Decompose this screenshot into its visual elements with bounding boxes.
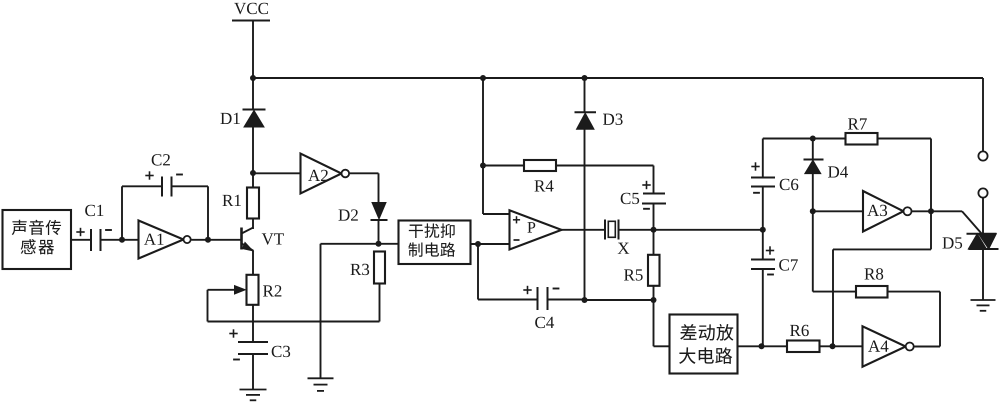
capacitor C2 label <box>152 154 162 165</box>
resistor R3 <box>374 252 385 284</box>
wire C2 loop top-left <box>122 185 162 187</box>
node R5 bottom junction <box>651 297 657 303</box>
resistor R5 <box>648 255 660 286</box>
node A3 input junction <box>810 208 816 214</box>
wire C7 top <box>762 230 764 260</box>
wire C6 top <box>762 139 764 178</box>
capacitor C7 plus <box>766 250 774 252</box>
capacitor C1 plus <box>76 231 84 233</box>
node X output junction <box>651 227 657 233</box>
block interference text <box>409 225 423 238</box>
node C6 C7 junction <box>760 227 766 233</box>
wire D3 top <box>584 78 586 112</box>
capacitor C5 label <box>621 193 631 204</box>
capacitor C2 <box>161 177 163 197</box>
resistor R6 <box>787 341 820 353</box>
resistor R5 label <box>624 269 635 280</box>
wire D2 junction left <box>321 243 379 245</box>
wire C2 loop top-right <box>172 185 209 187</box>
capacitor C2 plus <box>145 175 153 177</box>
capacitor C3 <box>238 341 268 343</box>
wire D4 bottom <box>812 174 814 212</box>
wire A2 output down to D2 <box>378 173 380 203</box>
capacitor C6 minus <box>753 192 760 194</box>
resistor R8 label <box>864 268 875 279</box>
ground mid <box>308 377 334 379</box>
ground under C3 <box>240 389 267 391</box>
block sound sensor text <box>12 220 27 235</box>
resistor R7 label <box>848 118 859 129</box>
op-amp A1 <box>139 221 184 259</box>
wire R5 bottom <box>653 286 655 300</box>
power VCC bar <box>232 20 270 22</box>
node A1 input junction <box>119 237 125 243</box>
wire A2 output right <box>350 172 379 174</box>
wire diff box output <box>738 345 788 347</box>
capacitor C6 <box>751 177 775 179</box>
wire down to mid ground <box>320 244 322 378</box>
resistor R4 <box>524 160 556 171</box>
wire A1 output to VT base <box>192 239 242 241</box>
node VCC rail junction <box>250 75 256 81</box>
wire R2 to C3 <box>252 305 254 342</box>
triac D5 label <box>942 237 953 248</box>
wire C5 to node <box>653 204 655 230</box>
wire sensor to C1 <box>71 239 91 241</box>
wire R3 bottom <box>379 284 381 322</box>
capacitor C6 plus <box>751 166 759 168</box>
ground under D5 <box>971 299 996 301</box>
wire A3 output <box>912 210 932 212</box>
op-amp A4 <box>863 326 906 366</box>
wire R5 node to diff box <box>653 300 655 346</box>
op-amp A4 label <box>868 340 880 351</box>
wire A3 input <box>813 210 863 212</box>
crystal X label <box>618 243 630 254</box>
transistor VT emitter <box>242 243 254 251</box>
resistor R2 label <box>263 285 274 296</box>
op-amp A2 label <box>308 170 320 181</box>
wire box to P junction <box>471 243 510 245</box>
wire D2 to junction <box>378 220 380 245</box>
resistor R8 <box>856 286 888 298</box>
diode D2 label <box>338 209 349 220</box>
block diff amp text <box>680 324 696 340</box>
node A1 output junction <box>205 237 211 243</box>
wire C2 loop left <box>121 186 123 240</box>
capacitor C1 label <box>85 205 95 216</box>
node base of D1 / A2 tap <box>250 170 256 176</box>
capacitor C2 minus <box>176 174 183 176</box>
op-amp P minus <box>514 239 520 241</box>
capacitor C7 minus <box>767 274 774 276</box>
wire D4 top <box>812 139 814 161</box>
capacitor C6 label <box>780 179 790 190</box>
capacitor C7 <box>751 259 775 261</box>
wire VCC to D1 <box>252 21 254 111</box>
capacitor C4 <box>537 287 539 310</box>
wire A4 output <box>914 346 941 348</box>
node D2 junction <box>376 241 382 247</box>
diode D2 <box>372 203 386 220</box>
power VCC label <box>234 3 246 14</box>
op-amp A3 label <box>867 205 879 216</box>
resistor R4 wire left <box>483 165 524 167</box>
wire C2 loop right <box>207 186 209 240</box>
triac D5 <box>967 233 997 235</box>
wire C4 right <box>548 299 585 301</box>
wire wiper to R3 bottom <box>208 321 380 323</box>
terminal circle 1 <box>978 151 987 160</box>
capacitor C4 plus <box>523 289 531 291</box>
resistor R6 label <box>790 325 801 336</box>
capacitor C5 <box>643 193 665 195</box>
wire C6 to R7 <box>763 138 846 140</box>
node rail tap 585 <box>582 75 588 81</box>
terminal circle 2 <box>978 188 987 197</box>
resistor R4 label <box>534 180 545 191</box>
wire P output to X <box>562 229 606 231</box>
wire A3 node down <box>930 211 932 249</box>
transistor VT base bar <box>240 228 243 250</box>
wire tap to A2 input <box>253 172 301 174</box>
diode D1 <box>243 109 266 111</box>
wire R4 right to C5 <box>556 165 654 167</box>
capacitor C5 minus <box>643 208 650 210</box>
op-amp P triangle <box>510 210 562 249</box>
diode D1 label <box>220 113 231 124</box>
wire R1 to VT collector <box>252 219 254 230</box>
node C4 right junction <box>582 297 588 303</box>
wire D3 bottom <box>584 129 586 300</box>
diode D3 label <box>603 114 614 125</box>
wire R7 right <box>878 138 932 140</box>
node C7 bottom junction <box>759 343 765 349</box>
wire D1 to R1 <box>252 127 254 188</box>
capacitor C1 <box>90 229 92 251</box>
capacitor C4 label <box>535 317 545 328</box>
block diff amp box <box>670 315 738 374</box>
wire top rail <box>253 77 983 79</box>
node rail tap 483 <box>480 75 486 81</box>
wire C4 node to R5 node <box>585 299 654 301</box>
node A4 input junction <box>830 343 836 349</box>
resistor R7 <box>846 133 878 145</box>
capacitor C3 label <box>272 346 282 357</box>
wire C6 bottom <box>762 187 764 230</box>
wire right rail down <box>982 78 984 152</box>
resistor R2 potentiometer <box>247 275 259 305</box>
transistor VT label <box>262 233 274 244</box>
crystal X <box>604 220 606 240</box>
node R4 left junction <box>480 163 486 169</box>
resistor R3 label <box>350 264 361 275</box>
capacitor C3 minus <box>233 359 240 361</box>
op-amp P plus <box>513 219 520 221</box>
transistor VT collector <box>242 227 254 233</box>
wire junction down to C4 <box>477 244 479 300</box>
node P minus input junction <box>475 241 481 247</box>
capacitor C3 plus <box>229 333 237 335</box>
op-amp A1 label <box>144 234 156 245</box>
wire D5 gate <box>931 210 962 212</box>
op-amp P label <box>527 222 535 232</box>
diode D4 label <box>828 166 839 177</box>
op-amp A3 <box>863 191 904 232</box>
wire R2 wiper arrow <box>208 289 243 291</box>
wire C7 bottom <box>762 269 764 346</box>
diode D3 <box>575 111 597 113</box>
wire wiper down <box>207 290 209 322</box>
wire D5 to ground <box>982 249 984 300</box>
resistor R1 label <box>222 195 233 206</box>
block sound sensor box <box>3 210 72 269</box>
node A3 output junction <box>928 208 934 214</box>
resistor R1 <box>247 188 259 219</box>
diode D4 <box>804 159 824 161</box>
wire R6 to A4 <box>820 345 863 347</box>
node D4 top junction <box>810 136 816 142</box>
wire D4 node down to R8 <box>812 211 814 291</box>
op-amp A2 <box>301 154 342 194</box>
wire VCC drop at 483 <box>482 78 484 166</box>
wire C3 to ground <box>252 354 254 390</box>
wire D2 junction to box <box>379 243 399 245</box>
wire VT emitter to R2 <box>252 251 254 276</box>
wire node to R5 <box>653 230 655 255</box>
wire 483 down to plus input <box>482 166 484 215</box>
wire circle2 to D5 <box>982 198 984 234</box>
wire C1 to A1 input <box>101 239 139 241</box>
capacitor C7 label <box>779 259 789 270</box>
capacitor C1 minus <box>105 229 112 231</box>
capacitor C4 minus <box>553 288 560 290</box>
wire X to node <box>619 229 763 231</box>
block interference suppression box <box>399 221 471 265</box>
capacitor C5 plus <box>642 184 650 186</box>
wire R8 right <box>888 291 941 293</box>
wire loop to A4 input <box>833 248 931 250</box>
